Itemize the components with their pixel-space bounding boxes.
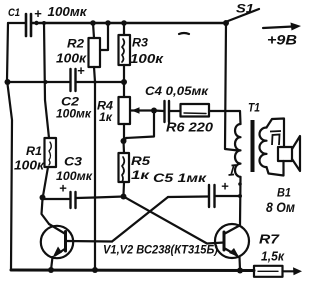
- node C5/collector junction: [238, 194, 242, 198]
- resistor R1 inner mark: [49, 142, 51, 165]
- svg-text:100к: 100к: [130, 52, 164, 66]
- node winding I lead blob: [238, 182, 242, 186]
- transformer T1 core: [251, 120, 255, 172]
- svg-text:R2: R2: [67, 37, 84, 51]
- svg-text:В1: В1: [277, 186, 291, 200]
- node C4 branch: [151, 108, 157, 114]
- resistor R1: [45, 138, 57, 167]
- svg-text:С1: С1: [8, 7, 20, 19]
- transistor V2: [215, 224, 249, 258]
- node B (R3/R4 junction): [121, 79, 127, 85]
- svg-text:R6 220: R6 220: [166, 121, 213, 135]
- switch S1: [223, 9, 259, 26]
- node top rail R2: [90, 20, 96, 26]
- svg-text:+: +: [59, 181, 67, 196]
- wire C5 left: [168, 195, 208, 198]
- label winding I: [229, 165, 237, 175]
- resistor R3 inner mark: [122, 39, 124, 62]
- svg-text:С3: С3: [64, 155, 82, 169]
- svg-text:+9В: +9В: [267, 33, 297, 48]
- svg-text:100мк: 100мк: [56, 107, 92, 121]
- node A (R1/C3 junction): [40, 195, 46, 201]
- wire top rail left of C1: [8, 22, 25, 24]
- label winding II: [270, 131, 281, 145]
- node center vertical on rail: [92, 267, 98, 273]
- wire node A to C3: [43, 198, 70, 200]
- node V1 emitter on rail: [48, 267, 54, 273]
- wire C4 to R6: [170, 110, 181, 112]
- wire winding I to V2 collector: [239, 177, 242, 225]
- resistor R7: [254, 266, 283, 277]
- wire cross-couple to V1 base (diagonal B): [112, 197, 168, 242]
- wiper arrow R4: [131, 107, 154, 114]
- node R4/R5 junction: [121, 138, 127, 144]
- wire wiper return to R4 bottom: [124, 111, 154, 141]
- svg-text:R1: R1: [26, 144, 42, 158]
- stray mark: [179, 33, 189, 34]
- svg-text:S1: S1: [236, 2, 254, 16]
- capacitor C1: [26, 14, 31, 36]
- svg-text:R5: R5: [131, 154, 150, 168]
- resistor R5: [119, 153, 130, 182]
- wire R1 bottom to node A: [43, 167, 48, 196]
- wire R5 bottom to node C: [122, 182, 125, 195]
- wire rail to R1 top: [44, 23, 49, 138]
- wire V2 emitter to rail: [238, 257, 241, 270]
- svg-text:С4 0,05мк: С4 0,05мк: [145, 84, 209, 98]
- wire winding II top to speaker: [267, 119, 285, 148]
- wire node B to R4: [123, 82, 125, 97]
- wire bottom rail: [11, 269, 254, 273]
- svg-text:+: +: [221, 179, 229, 194]
- node R2 bottom wire junction: [93, 80, 96, 83]
- svg-text:1к: 1к: [131, 168, 150, 182]
- node top rail R3: [121, 20, 127, 26]
- resistor R7 inner mark: [258, 270, 278, 272]
- svg-text:R3: R3: [132, 36, 148, 50]
- wire rail down R3 top: [123, 23, 125, 35]
- node V2 emitter on rail: [237, 268, 243, 274]
- wire C2 to node B: [77, 81, 125, 83]
- svg-text:R7: R7: [259, 233, 280, 247]
- wire stub from rail to R2 side: [100, 23, 108, 50]
- wire top rail C1 to S1: [32, 22, 226, 25]
- svg-text:100мк: 100мк: [48, 5, 88, 19]
- wire C5 right to V2 collector: [216, 195, 241, 197]
- svg-text:V1,V2 ВС238(КТ315Б): V1,V2 ВС238(КТ315Б): [103, 243, 218, 257]
- wire R4 bottom to node: [123, 124, 125, 140]
- wire node A down to V1 collector: [42, 199, 50, 224]
- node R1 line crossing: [44, 80, 48, 84]
- wire R6 to T1 primary: [209, 111, 241, 124]
- arrow +9V: [263, 23, 301, 31]
- wire left border: [7, 23, 12, 270]
- transistor V1: [41, 224, 73, 258]
- node top rail stub: [105, 20, 111, 26]
- wire R2 bottom down to bottom rail: [94, 67, 95, 270]
- wire C3 to R5 bottom node: [77, 197, 124, 199]
- svg-text:+: +: [77, 63, 85, 78]
- resistor R6: [181, 104, 210, 117]
- transformer T1 winding I: [235, 124, 240, 177]
- wire V1 base lead: [66, 240, 112, 243]
- svg-text:100к: 100к: [14, 159, 45, 173]
- svg-text:+: +: [34, 6, 42, 21]
- wire rail down R2 top: [93, 23, 94, 38]
- wire node C4 left: [154, 109, 164, 112]
- svg-text:Т1: Т1: [248, 101, 260, 115]
- resistor R3: [119, 35, 131, 65]
- resistor R5 inner mark: [122, 157, 124, 182]
- svg-text:С5 1мк: С5 1мк: [153, 171, 207, 185]
- arrow output: [283, 267, 303, 275]
- node left border C2 wire: [5, 79, 11, 85]
- node top rail R1 branch: [42, 21, 46, 25]
- capacitor C5: [209, 185, 215, 207]
- capacitor C3: [71, 192, 76, 208]
- node C (R5/C3 junction): [121, 194, 127, 200]
- wire node to R5: [122, 141, 125, 153]
- resistor R4: [119, 97, 131, 124]
- svg-text:1,5к: 1,5к: [261, 250, 285, 264]
- svg-text:8 Ом: 8 Ом: [266, 200, 295, 215]
- wire R3 bottom to node B: [123, 65, 125, 82]
- wire S1 down to T1: [225, 23, 238, 151]
- resistor R2: [89, 38, 101, 67]
- wire winding II bottom to speaker: [267, 161, 284, 176]
- wire cross-couple to V2 base (diagonal A): [124, 197, 225, 244]
- speaker B1: [278, 136, 300, 171]
- capacitor C4: [165, 101, 170, 122]
- capacitor C2: [71, 69, 76, 91]
- wire V1 emitter to bottom rail: [51, 257, 53, 270]
- node top rail at C1: [34, 21, 38, 25]
- resistor R6 inner mark: [184, 112, 206, 115]
- wire border to C2: [8, 81, 70, 83]
- svg-text:1к: 1к: [99, 110, 113, 124]
- transformer T1 winding II: [260, 128, 267, 168]
